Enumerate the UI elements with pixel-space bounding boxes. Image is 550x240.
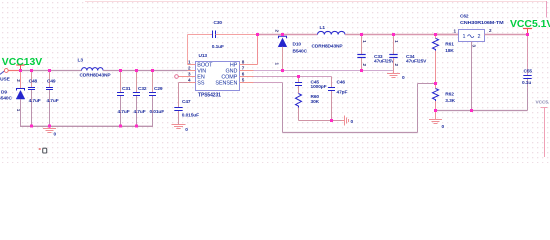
svg-text:R60: R60 xyxy=(311,94,320,100)
wire input rail xyxy=(8,70,22,72)
svg-text:TPS54231: TPS54231 xyxy=(198,93,221,99)
pin 3 EN xyxy=(178,76,195,78)
wire SENSEN feedback xyxy=(240,82,254,84)
svg-text:1: 1 xyxy=(188,60,191,65)
svg-text:0: 0 xyxy=(351,119,354,125)
svg-text:R61: R61 xyxy=(445,42,454,48)
junction VCC5.1V node xyxy=(526,33,529,36)
ground 0 at R62 xyxy=(435,111,437,120)
svg-text:3.3K: 3.3K xyxy=(445,98,455,104)
resistor R61 xyxy=(435,35,437,39)
svg-text:B540C: B540C xyxy=(293,49,308,55)
resistor R60 xyxy=(296,94,302,108)
svg-text:L3: L3 xyxy=(78,58,84,64)
junction D10 anode on GND rail xyxy=(281,69,284,72)
svg-text:C29: C29 xyxy=(154,86,163,92)
capacitor C49 xyxy=(49,71,51,88)
svg-text:18K: 18K xyxy=(445,48,454,54)
junction C46 bottom xyxy=(330,119,333,122)
capacitor C55 xyxy=(527,35,529,76)
svg-text:3: 3 xyxy=(188,72,191,77)
wire input bottom rail xyxy=(20,125,153,127)
svg-text:D9: D9 xyxy=(1,89,7,95)
svg-text:2: 2 xyxy=(188,65,191,70)
svg-text:2: 2 xyxy=(394,63,399,66)
inductor L1 xyxy=(318,31,346,34)
junction C34 top xyxy=(392,33,395,36)
svg-text:1: 1 xyxy=(16,109,21,112)
svg-text:C49: C49 xyxy=(47,79,56,85)
junction C32 bottom xyxy=(135,125,138,128)
wire C62 pin3 down xyxy=(471,42,473,111)
svg-text:1: 1 xyxy=(463,34,466,40)
ground 0 at C47 xyxy=(172,124,186,126)
junction C33 bottom xyxy=(360,69,363,72)
svg-text:U13: U13 xyxy=(199,53,208,59)
svg-text:47pF: 47pF xyxy=(337,90,348,96)
svg-text:D10: D10 xyxy=(293,42,302,48)
junction C48 bottom xyxy=(30,125,33,128)
wire C62 out xyxy=(485,34,528,36)
wire output rail xyxy=(345,34,459,36)
wire GND pin7 rail xyxy=(240,70,254,72)
svg-text:CNH30R106M-TM: CNH30R106M-TM xyxy=(460,20,504,26)
svg-text:C32: C32 xyxy=(138,86,147,92)
svg-text:7: 7 xyxy=(242,65,245,70)
junction C48 top xyxy=(30,69,33,72)
svg-text:SENSEN: SENSEN xyxy=(215,80,237,86)
capacitor C46 xyxy=(331,77,333,88)
svg-text:0: 0 xyxy=(185,127,188,133)
junction PH node pin8 xyxy=(256,33,259,36)
svg-text:1000pF: 1000pF xyxy=(311,84,327,90)
svg-text:0.015uF: 0.015uF xyxy=(182,113,199,119)
capacitor C34 xyxy=(393,35,395,55)
svg-text:2: 2 xyxy=(478,34,481,40)
svg-text:4.7uF: 4.7uF xyxy=(134,109,146,115)
filter C62 xyxy=(436,34,459,36)
svg-text:1: 1 xyxy=(362,40,367,43)
svg-text:47uF/25V: 47uF/25V xyxy=(406,59,427,65)
wire comp bottom xyxy=(299,120,342,122)
junction C45 top on COMP xyxy=(297,75,300,78)
svg-text:C46: C46 xyxy=(337,79,346,85)
junction R62 bottom gnd xyxy=(434,109,437,112)
ground 0 at C34 xyxy=(393,71,395,74)
ground 0 at C49 xyxy=(49,126,51,128)
svg-text:1: 1 xyxy=(454,29,457,34)
svg-text:0.1uF: 0.1uF xyxy=(212,44,224,50)
svg-text:4.7uF: 4.7uF xyxy=(29,98,41,104)
svg-text:R62: R62 xyxy=(445,92,454,98)
capacitor C33 xyxy=(361,35,363,55)
svg-text:C31: C31 xyxy=(122,86,131,92)
resistor R62 xyxy=(435,84,437,89)
pin 2 VIN xyxy=(188,70,196,72)
svg-text:2: 2 xyxy=(362,63,367,66)
junction C31 bottom xyxy=(119,125,122,128)
svg-text:8: 8 xyxy=(242,60,245,65)
svg-text:5: 5 xyxy=(242,78,245,83)
svg-text:SS: SS xyxy=(197,80,205,86)
svg-text:C55: C55 xyxy=(524,69,533,75)
capacitor C45 xyxy=(298,77,300,83)
junction C49 bottom xyxy=(48,125,51,128)
svg-text:3: 3 xyxy=(472,45,477,48)
svg-text:47uF/25V: 47uF/25V xyxy=(374,59,395,65)
svg-text:4.7uF: 4.7uF xyxy=(47,98,59,104)
capacitor C47 xyxy=(179,82,188,84)
junction C33 top xyxy=(360,33,363,36)
svg-text:VCC13V: VCC13V xyxy=(2,57,42,68)
capacitor C32 xyxy=(136,71,138,93)
svg-text:4.7uF: 4.7uF xyxy=(118,109,130,115)
junction R61 top xyxy=(434,33,437,36)
svg-text:1: 1 xyxy=(274,63,279,66)
svg-text:CDRH8D43NP: CDRH8D43NP xyxy=(80,73,112,79)
svg-text:30K: 30K xyxy=(311,99,320,105)
junction R61/R62 feedback node xyxy=(434,82,437,85)
diode D9 xyxy=(20,71,22,89)
svg-text:B540C: B540C xyxy=(0,95,12,101)
svg-text:VCC5.1V: VCC5.1V xyxy=(510,19,550,30)
ground 0 sideways comp xyxy=(342,120,345,122)
svg-text:0: 0 xyxy=(54,131,57,137)
wire rail after L3 xyxy=(103,70,187,72)
svg-text:1: 1 xyxy=(394,40,399,43)
svg-text:C62: C62 xyxy=(460,14,469,20)
capacitor C29 xyxy=(152,71,154,93)
capacitor C31 xyxy=(120,71,122,93)
svg-text:0: 0 xyxy=(442,124,445,130)
svg-text:CDRH8D43NP: CDRH8D43NP xyxy=(312,43,344,49)
wire top edge cropped xyxy=(85,1,547,3)
svg-text:0: 0 xyxy=(402,75,405,81)
svg-text:4: 4 xyxy=(188,78,191,83)
junction C62 pin3 gnd xyxy=(470,109,473,112)
power symbol VCC13V xyxy=(20,65,22,71)
svg-text:0.1u: 0.1u xyxy=(522,80,531,86)
junction D9/VCC13V on input rail xyxy=(19,69,22,72)
svg-text:L1: L1 xyxy=(320,25,326,31)
power symbol VCC5.1V xyxy=(527,29,529,35)
svg-text:VCC5.: VCC5. xyxy=(536,100,550,106)
svg-text:2: 2 xyxy=(16,79,21,82)
capacitor C48 xyxy=(31,71,33,88)
svg-text:C30: C30 xyxy=(214,20,223,26)
pin 4 SS xyxy=(188,82,196,84)
diode D10 xyxy=(282,35,284,37)
svg-text:2: 2 xyxy=(489,28,492,33)
wire bottom right gnd run xyxy=(436,110,528,112)
pin 1 BOOT xyxy=(188,64,196,66)
IC U13 TPS54231 xyxy=(196,62,240,91)
svg-text:FUSE: FUSE xyxy=(0,77,11,83)
svg-text:C47: C47 xyxy=(182,99,191,105)
cropped artifact bottom left xyxy=(39,148,41,150)
junction D10 cathode xyxy=(281,33,284,36)
junction C29 top xyxy=(151,69,154,72)
svg-text:C48: C48 xyxy=(29,79,38,85)
wire PH node xyxy=(257,35,259,65)
pin 8 HP xyxy=(240,64,258,66)
junction C31 top xyxy=(119,69,122,72)
inductor L3 xyxy=(82,68,104,71)
svg-text:0.01uF: 0.01uF xyxy=(150,109,165,115)
junction C49 top xyxy=(48,69,51,72)
wire COMP pin6 xyxy=(240,76,254,78)
node VCC13V input terminal xyxy=(0,71,5,75)
svg-text:6: 6 xyxy=(242,72,245,77)
capacitor C30 bootstrap xyxy=(187,35,189,65)
junction C32 top xyxy=(135,69,138,72)
svg-text:2: 2 xyxy=(274,30,279,33)
